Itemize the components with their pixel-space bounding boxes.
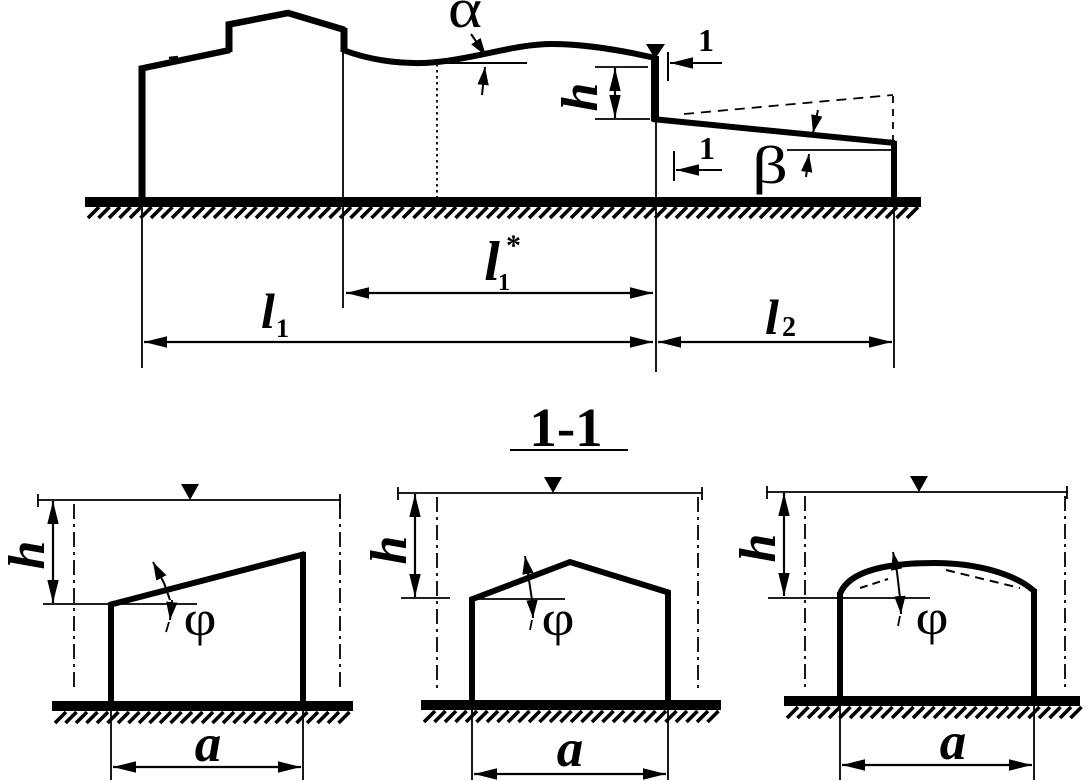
section C: a dimension line xyxy=(842,764,1032,766)
roof step wall at section line xyxy=(651,56,659,121)
svg-text:*: * xyxy=(506,229,521,262)
svg-text:a: a xyxy=(940,713,967,771)
svg-text:l: l xyxy=(261,283,275,339)
section B: top level line xyxy=(397,492,703,494)
svg-text:1: 1 xyxy=(498,270,510,296)
svg-text:h: h xyxy=(361,536,418,565)
label l1 xyxy=(261,283,289,343)
svg-text:φ: φ xyxy=(916,589,949,645)
section A: a dimension line xyxy=(113,766,301,768)
section C: level mark triangle xyxy=(910,476,928,492)
beta reference line xyxy=(787,149,894,151)
h dimension (elevation) arrow xyxy=(614,68,616,118)
section B: level mark triangle xyxy=(544,477,562,493)
section C: top level line xyxy=(766,491,1068,493)
section mark 1 lower tick xyxy=(673,151,675,181)
clerestory step up xyxy=(226,22,233,52)
alpha tangent line xyxy=(420,62,527,64)
dashed roof projection line xyxy=(684,95,893,114)
section C: h dimension xyxy=(783,493,785,596)
svg-text:φ: φ xyxy=(184,590,217,646)
section B: a dimension extension lines xyxy=(471,709,473,780)
dimension line l2 xyxy=(658,341,892,343)
lower roof slope left building xyxy=(139,50,230,69)
section mark 1 lower arrow xyxy=(676,169,722,171)
clerestory roof xyxy=(226,13,345,30)
alpha angle arrows xyxy=(471,34,486,56)
svg-text:1: 1 xyxy=(699,130,715,166)
section A: a dimension extension lines xyxy=(110,710,112,780)
dashed projection vertical xyxy=(892,96,894,140)
beta angle arrows xyxy=(813,110,818,133)
section A: right axis dash-dot xyxy=(339,504,341,690)
svg-text:1-1: 1-1 xyxy=(529,397,602,458)
svg-text:h: h xyxy=(552,83,609,112)
section B: right axis dash-dot xyxy=(697,497,699,690)
section A: level mark triangle xyxy=(181,484,199,500)
dimension line l1 xyxy=(144,341,653,343)
svg-text:a: a xyxy=(557,720,584,778)
dotted axis at roof dip xyxy=(436,64,438,197)
section mark 1 upper arrow xyxy=(670,62,722,64)
section A: h dimension xyxy=(52,501,54,603)
section B: left axis dash-dot xyxy=(436,497,438,690)
section B: ground xyxy=(421,700,721,710)
svg-text:1: 1 xyxy=(276,314,289,343)
section C: right axis dash-dot xyxy=(1064,496,1066,690)
section C: ground hatching xyxy=(787,707,1082,718)
section C: dashed arch chord hints xyxy=(946,570,1020,588)
svg-text:β: β xyxy=(752,137,788,195)
section C: phi angle arrow xyxy=(893,552,897,572)
section C: left axis dash-dot xyxy=(804,496,806,690)
left building wall xyxy=(139,67,146,204)
section A: ground xyxy=(52,701,353,711)
section C: a dimension extension lines xyxy=(839,705,841,780)
section line x=343 xyxy=(342,30,344,308)
right building wall xyxy=(891,141,897,203)
ground line (elevation) xyxy=(85,197,921,207)
extension line x=142 xyxy=(141,205,143,368)
section A: phi angle arrow xyxy=(153,562,164,583)
section C: building outline xyxy=(840,563,1034,701)
svg-text:h: h xyxy=(0,541,56,570)
section A: top level line xyxy=(37,499,341,501)
h dimension (elevation) top tick xyxy=(595,66,648,68)
svg-text:1: 1 xyxy=(698,22,714,58)
svg-text:h: h xyxy=(730,534,787,563)
section B: eave reference line xyxy=(401,597,450,599)
section/extension line x=656 xyxy=(655,121,657,372)
section B: h dimension xyxy=(414,494,416,597)
svg-text:l: l xyxy=(765,289,779,345)
section A: eave reference line xyxy=(43,603,197,605)
roof overshoot tick at left wall top xyxy=(169,57,178,58)
label l1* xyxy=(484,229,521,296)
section mark 1 upper tick xyxy=(667,52,669,81)
section A: building outline xyxy=(109,552,305,706)
clerestory step down xyxy=(341,28,348,52)
section B: a dimension line xyxy=(474,773,666,775)
section A: left axis dash-dot xyxy=(73,504,75,690)
h dimension (elevation) bottom tick xyxy=(595,118,650,120)
level mark triangle (elevation) xyxy=(646,44,665,59)
svg-text:φ: φ xyxy=(542,590,575,646)
section B: building outline xyxy=(470,562,670,704)
section A: ground hatching xyxy=(55,712,350,723)
wavy shell roof xyxy=(343,44,655,63)
extension line x=894 xyxy=(893,205,895,368)
svg-text:a: a xyxy=(195,715,222,773)
dimension line l1* xyxy=(346,292,653,294)
svg-text:2: 2 xyxy=(782,312,796,343)
section B: phi angle arrow xyxy=(525,556,529,580)
section C: eave reference line xyxy=(768,597,930,599)
section B: ground hatching xyxy=(424,711,719,722)
low-bay roof slope xyxy=(652,119,895,143)
ground hatching (elevation) xyxy=(88,207,918,218)
section title 1-1 xyxy=(510,397,628,458)
label l2 xyxy=(765,289,796,345)
section C: ground xyxy=(784,696,1080,706)
svg-text:α: α xyxy=(448,0,482,40)
